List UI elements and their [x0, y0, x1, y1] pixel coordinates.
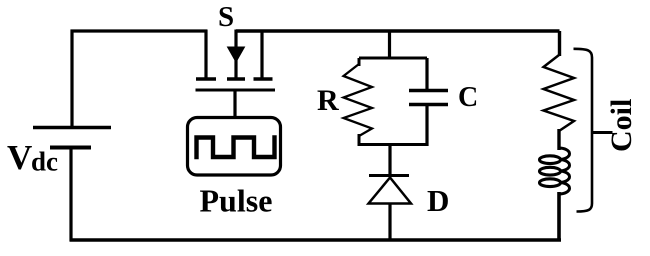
wire bottom rail [70, 238, 562, 242]
transistor Q1 left stub (drain) [204, 30, 207, 79]
transistor Q1 source bar [254, 77, 273, 81]
diode D cathode bar [369, 174, 409, 177]
svg-text:Coil: Coil [605, 99, 638, 152]
svg-text:V: V [7, 138, 32, 177]
wire top-left (Vdc+ to MOSFET drain) [71, 29, 208, 32]
brace cusp [592, 131, 613, 134]
svg-text:S: S [218, 1, 234, 33]
capacitor C top stub [425, 58, 428, 91]
transistor Q1 middle bar [227, 77, 245, 81]
svg-text:C: C [458, 82, 478, 113]
capacitor C bottom plate [409, 103, 448, 107]
brace bracket right [574, 49, 593, 212]
svg-text:Pulse: Pulse [200, 183, 273, 219]
wire gate to pulse source [233, 90, 236, 118]
pulse generator box [188, 118, 281, 176]
transistor Q1 middle stub with body-diode arrow [234, 30, 237, 79]
pulse square waveform [197, 138, 275, 158]
transistor Q1 right stub (source) [260, 30, 263, 79]
wire snubber bottom bar [359, 143, 427, 146]
svg-text:D: D [427, 183, 449, 218]
resistor R top stub [358, 58, 361, 66]
resistor R zigzag [344, 64, 373, 136]
svg-text:R: R [317, 84, 339, 117]
wire snubber to diode [388, 145, 391, 177]
transistor Q1 gate line [196, 89, 276, 92]
wire snubber top bar [359, 57, 427, 60]
resistor (coil winding resistance) zigzag [544, 55, 575, 131]
wire top-right (source rail to coil branch) [236, 31, 560, 56]
resistor R bottom stub [358, 134, 361, 146]
wire resistor to inductor [557, 129, 560, 150]
wire left vertical lower [69, 147, 72, 241]
transistor Q1 drain bar [196, 77, 216, 81]
capacitor C bottom stub [425, 105, 428, 147]
capacitor C top plate [409, 89, 448, 93]
inductor L loops [559, 148, 570, 194]
wire top rail to snubber [388, 31, 391, 58]
wire left vertical upper [70, 30, 73, 128]
diode D triangle [369, 178, 412, 204]
battery V1 bottom plate (short) [50, 146, 91, 150]
svg-text:dc: dc [31, 147, 58, 177]
battery V1 top plate (long) [33, 126, 111, 130]
wire inductor to bottom rail [557, 192, 561, 241]
wire diode to bottom rail [388, 204, 391, 242]
